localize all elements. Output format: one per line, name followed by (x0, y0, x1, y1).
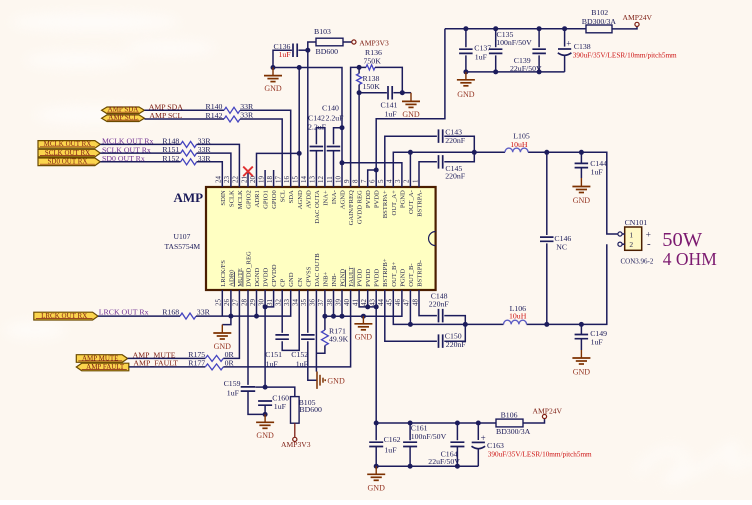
ground GND (C144) (580, 168, 582, 178)
ferrite bead B103 (316, 38, 343, 46)
resistor R142 (224, 116, 240, 122)
svg-text:22: 22 (232, 176, 240, 184)
svg-text:390uF/35V/LESR/10mm/pitch5mm: 390uF/35V/LESR/10mm/pitch5mm (488, 451, 592, 459)
svg-text:28: 28 (240, 299, 248, 307)
wire PVDD feed to pins 6/7 (376, 29, 445, 187)
wire AGND bus (273, 68, 342, 188)
connector CN101 (625, 227, 642, 250)
svg-text:220nF: 220nF (429, 300, 450, 309)
capacitor C163 (polarized) (477, 423, 479, 440)
svg-text:GND: GND (288, 272, 295, 287)
svg-text:R152: R152 (162, 154, 179, 163)
junction pin15 top (297, 65, 302, 70)
svg-text:27: 27 (232, 299, 240, 307)
svg-text:BSTRPB-: BSTRPB- (417, 260, 424, 287)
svg-text:24: 24 (215, 176, 223, 184)
svg-text:40: 40 (343, 299, 351, 307)
svg-text:150K: 150K (363, 82, 381, 91)
junction gain node (357, 65, 362, 70)
svg-text:GND: GND (457, 90, 475, 99)
svg-text:29: 29 (249, 299, 257, 307)
junction PVDD rail left (374, 421, 379, 426)
wire B106 to AMP24V (523, 419, 545, 423)
wire AMP SCL to R142 (144, 118, 224, 120)
ground GND (C149) (580, 339, 582, 350)
resistor R175 (205, 355, 223, 361)
svg-text:CPVSS: CPVSS (305, 266, 312, 286)
svg-text:220nF: 220nF (446, 340, 467, 349)
wire R168 to pins 25/26/29/33 (196, 290, 291, 316)
pin37 riser (324, 290, 326, 316)
junction C146 bottom (544, 322, 549, 327)
wire AMP MUTE to R175 (128, 357, 206, 359)
svg-text:2: 2 (403, 179, 411, 183)
svg-text:DAC OUTA: DAC OUTA (314, 190, 321, 224)
svg-text:DVDD: DVDD (263, 268, 270, 287)
junction pin10 lower (340, 160, 345, 165)
svg-text:SDA: SDA (288, 190, 295, 203)
wire B103 to AMP3V3 (343, 41, 352, 43)
svg-text:R175: R175 (188, 350, 205, 359)
svg-text:R142: R142 (206, 111, 223, 120)
svg-text:INA-: INA- (331, 190, 338, 204)
svg-text:GND: GND (256, 431, 274, 440)
capacitor C142 (310, 147, 324, 151)
junction C136/B103/AVDD (305, 48, 310, 53)
pin1 stub (622, 233, 625, 235)
svg-text:OUT_B-: OUT_B- (408, 263, 415, 286)
svg-text:32: 32 (275, 299, 283, 307)
svg-text:220nF: 220nF (445, 171, 466, 180)
ground GND (top rail) (465, 72, 467, 80)
svg-text:LRCK/FS: LRCK/FS (220, 260, 227, 287)
junction pin26 (228, 314, 233, 319)
wire OUT_A main (393, 152, 505, 187)
svg-text:41: 41 (351, 299, 359, 307)
capacitor C161 (409, 423, 411, 440)
ground GND (bottom) (375, 466, 377, 474)
wire pin10 lower gnd to pin3 PGND (342, 163, 402, 187)
svg-text:11: 11 (326, 176, 334, 183)
wire bottom gnd rail (376, 465, 478, 467)
svg-text:47: 47 (403, 299, 411, 307)
wire AMP FAULT to R177 (129, 366, 206, 368)
svg-text:AMP3V3: AMP3V3 (359, 39, 389, 48)
svg-text:4 OHM: 4 OHM (663, 249, 717, 269)
svg-text:17: 17 (275, 176, 283, 184)
svg-text:34: 34 (292, 299, 300, 307)
wire C140 bottom to pin11 (333, 151, 335, 187)
wire pin12 to C142 top (316, 128, 325, 187)
wire pin2 riser (409, 152, 411, 187)
svg-text:33: 33 (283, 299, 291, 307)
svg-text:50W: 50W (662, 229, 703, 251)
wire R177 to pin40 FAULT (223, 290, 350, 367)
svg-text:+: + (566, 38, 571, 48)
svg-text:PVDD: PVDD (365, 269, 372, 287)
junction C146 top (544, 150, 549, 155)
svg-text:4: 4 (386, 179, 394, 183)
wire R148 to pin22 (197, 144, 240, 187)
svg-text:1uF: 1uF (591, 338, 604, 347)
junction DVDD node (263, 385, 268, 390)
ground GND (horizontal) (317, 372, 325, 389)
junction gnd node under C160 (263, 412, 268, 417)
svg-text:PGND: PGND (399, 190, 406, 208)
svg-text:SCL: SCL (280, 190, 287, 202)
wire pin43 PVDD column (375, 290, 377, 440)
wire MCLK OUT RX to R148 (100, 143, 180, 145)
svg-text:AVDD: AVDD (305, 190, 312, 208)
svg-text:GND: GND (264, 84, 282, 93)
wire C162 bottom (375, 447, 377, 467)
capacitor C160 (258, 401, 272, 405)
svg-text:OUT_A+: OUT_A+ (391, 190, 398, 216)
resistor R148 (181, 141, 197, 147)
pin 2 circle (618, 242, 622, 246)
wire node up to B103 (308, 42, 316, 50)
capacitor C139 (538, 29, 540, 48)
svg-text:CP: CP (280, 278, 287, 286)
svg-text:1uF: 1uF (475, 52, 488, 61)
capacitor C143 (bootstrap A+) (385, 136, 437, 187)
wire B105 to AMP3V3 (294, 423, 296, 437)
svg-text:38: 38 (326, 299, 334, 307)
wire pin7 jumper (368, 170, 377, 187)
svg-text:PGND: PGND (399, 269, 406, 287)
svg-text:31: 31 (266, 299, 274, 307)
svg-text:35: 35 (300, 299, 308, 307)
svg-text:GPIO0: GPIO0 (271, 190, 278, 209)
resistor R136 (359, 66, 366, 68)
svg-text:OUT_A-: OUT_A- (408, 190, 415, 214)
svg-text:390uF/35V/LESR/10mm/pitch5mm: 390uF/35V/LESR/10mm/pitch5mm (573, 52, 677, 60)
svg-text:GAIN/FREQ: GAIN/FREQ (348, 190, 355, 225)
svg-text:1uF: 1uF (384, 445, 397, 454)
wire top group gnd rail (466, 71, 565, 73)
svg-text:1uF: 1uF (274, 402, 287, 411)
svg-text:15: 15 (292, 176, 300, 184)
junction C143/C145 riser (472, 150, 477, 155)
capacitor C135 (495, 29, 497, 48)
svg-text:R148: R148 (162, 137, 179, 146)
svg-text:DVDD_REG: DVDD_REG (246, 251, 253, 287)
svg-text:44: 44 (377, 299, 385, 307)
capacitor C140 (327, 147, 341, 151)
wire DVDD node to B105 (265, 387, 295, 397)
resistor R138 (358, 67, 360, 73)
svg-text:25: 25 (215, 299, 223, 307)
svg-text:BSTRPA+: BSTRPA+ (382, 190, 389, 218)
svg-text:1: 1 (411, 179, 419, 183)
capacitor C151 (CP flying) (281, 290, 283, 333)
wire R151 to pin23 (197, 153, 231, 187)
svg-text:AMP24V: AMP24V (623, 13, 653, 22)
svg-text:AGND: AGND (340, 190, 347, 209)
svg-text:-: - (647, 238, 651, 250)
svg-text:7: 7 (360, 179, 368, 183)
pin38 riser (333, 290, 335, 316)
junction pin2/OUT_A (408, 150, 413, 155)
svg-text:TAS5754M: TAS5754M (165, 242, 201, 251)
wire GND bus to C136 (273, 50, 292, 67)
svg-text:PVDD: PVDD (365, 190, 372, 208)
power port AMP3V3 (352, 40, 356, 44)
svg-text:DGND: DGND (254, 268, 261, 287)
junction pin43 (374, 304, 379, 309)
svg-text:C138: C138 (574, 42, 591, 51)
wire pins41-43 jumper (359, 290, 376, 307)
svg-text:MCLK: MCLK (237, 190, 244, 209)
svg-text:OUT_B+: OUT_B+ (391, 262, 398, 287)
pin name bars (233, 272, 235, 287)
svg-text:10: 10 (334, 176, 342, 184)
svg-text:18: 18 (266, 176, 274, 184)
svg-text:2.2uF: 2.2uF (308, 123, 327, 132)
svg-text:GND: GND (402, 110, 420, 119)
svg-text:PVDD: PVDD (374, 190, 381, 208)
ground GND (C160) (264, 414, 266, 422)
wire R142 to pin17 SCL (240, 119, 282, 187)
wire SCLK OUT RX to R151 (100, 152, 180, 154)
junction pin37 (322, 314, 327, 319)
port AMP_FAULT (76, 363, 129, 371)
svg-text:BD300/3A: BD300/3A (496, 427, 531, 436)
junction C148/C150 riser (463, 322, 468, 327)
svg-text:1uF: 1uF (279, 50, 292, 59)
pin 1 circle (618, 232, 622, 236)
capacitor C145 (bootstrap A-) (419, 162, 437, 187)
svg-text:INB+: INB+ (322, 271, 329, 286)
port MCLK OUT RX (38, 141, 100, 149)
svg-text:PVDD: PVDD (357, 269, 364, 287)
svg-text:750K: 750K (364, 56, 382, 65)
junction bottom rail left (374, 464, 379, 469)
ground GND (AGND bus) (272, 68, 274, 76)
power port AMP24V (bottom) (542, 414, 546, 418)
wire AMP SDA to R140 (144, 109, 224, 111)
resistor R177 (205, 364, 223, 370)
svg-text:BSTRPB+: BSTRPB+ (382, 258, 389, 287)
svg-text:12: 12 (317, 176, 325, 184)
wire pin31 jumper to pin30 (265, 290, 274, 307)
svg-text:220nF: 220nF (445, 136, 466, 145)
wire pin20 ADR1 to pin15 AGND (257, 153, 300, 187)
svg-text:BD600: BD600 (316, 47, 339, 56)
junction C144 (579, 150, 584, 155)
wire GVDD node to pin8 (358, 93, 360, 187)
svg-text:26: 26 (223, 299, 231, 307)
port SCLK OUT RX (38, 149, 100, 157)
capacitor C137 (465, 29, 467, 48)
wire GVDD node to C141 (359, 92, 387, 94)
svg-text:39: 39 (334, 299, 342, 307)
ferrite bead B106 (496, 419, 523, 427)
capacitor C162 (369, 442, 383, 446)
svg-text:DAC OUTB: DAC OUTB (314, 253, 321, 287)
pin26 riser (230, 290, 232, 316)
wire 24V top rail (445, 28, 586, 30)
wire 24V bottom rail (376, 422, 496, 424)
svg-text:R168: R168 (162, 307, 179, 316)
resistor R140 (224, 107, 240, 113)
wire C136 to B103/AVDD node (298, 49, 307, 51)
junction pin30 (263, 304, 268, 309)
svg-text:1uF: 1uF (591, 167, 604, 176)
wire R140 to pin16 SDA (240, 110, 291, 187)
svg-text:LRCK OUT Rx: LRCK OUT Rx (99, 307, 149, 316)
svg-text:BSTRPA-: BSTRPA- (417, 190, 424, 217)
svg-text:37: 37 (317, 299, 325, 307)
svg-text:C141: C141 (381, 100, 398, 109)
wire pin47 riser (409, 290, 411, 324)
svg-text:SDIN: SDIN (220, 190, 227, 206)
svg-text:19: 19 (257, 176, 265, 184)
no-connect X on pin 21 (243, 167, 253, 177)
svg-text:ADR1: ADR1 (254, 190, 261, 207)
svg-text:2: 2 (629, 240, 633, 249)
svg-text:C140: C140 (322, 104, 339, 113)
wire C141 to gnd node (393, 92, 402, 94)
svg-text:+: + (481, 433, 486, 443)
port AMP_SDA (102, 107, 145, 114)
svg-text:36: 36 (309, 299, 317, 307)
junction AGND/GND (271, 65, 276, 70)
svg-text:1uF: 1uF (227, 388, 240, 397)
svg-text:1uF: 1uF (385, 109, 398, 118)
svg-text:NC: NC (556, 243, 567, 252)
junction C149 (579, 322, 584, 327)
svg-text:10uH: 10uH (509, 312, 527, 321)
pin39 riser (341, 290, 343, 316)
svg-text:14: 14 (300, 176, 308, 184)
ground GND (B row) (361, 314, 366, 319)
svg-text:GND: GND (327, 376, 345, 385)
inductor L106 (504, 320, 527, 324)
svg-text:BD300/3A: BD300/3A (582, 17, 617, 26)
svg-text:48: 48 (411, 299, 419, 307)
svg-text:B103: B103 (314, 27, 331, 36)
port AMP_SCL (102, 115, 145, 122)
svg-text:CON3.96-2: CON3.96-2 (621, 258, 654, 266)
svg-text:R177: R177 (188, 359, 205, 368)
svg-text:CN: CN (297, 277, 304, 286)
wire C159 bottom (248, 391, 265, 414)
svg-text:46: 46 (394, 299, 402, 307)
junction C141 gnd node (400, 90, 405, 95)
power port AMP24V (top) (635, 22, 639, 26)
svg-text:GPIO2: GPIO2 (246, 190, 253, 209)
resistor R151 (181, 150, 197, 156)
svg-text:AMP: AMP (174, 190, 204, 205)
capacitor C159 (241, 387, 256, 391)
pin2 stub (622, 243, 625, 245)
junction pin42 (365, 304, 370, 309)
junction pin38 (331, 314, 336, 319)
port LRCK_OUT_RX (34, 312, 98, 320)
wire OUT_B main (393, 290, 503, 324)
junction pin39 (340, 314, 345, 319)
svg-text:3: 3 (394, 179, 402, 183)
capacitor C141 (388, 86, 392, 100)
svg-text:10uH: 10uH (510, 140, 528, 149)
junction GVDD node (357, 90, 362, 95)
svg-text:13: 13 (309, 176, 317, 184)
svg-text:GND: GND (573, 196, 591, 205)
svg-text:GND: GND (368, 483, 386, 492)
inductor L105 (505, 148, 528, 152)
capacitor C152 (CPVSS) (307, 290, 309, 333)
op-amp U107 TAS5754M chip body (206, 187, 436, 290)
junction pin29 (254, 314, 259, 319)
svg-text:AMP24V: AMP24V (533, 407, 563, 416)
svg-text:100nF/50V: 100nF/50V (496, 38, 532, 47)
svg-text:R140: R140 (206, 102, 223, 111)
wire LRCK to R168 (98, 315, 180, 317)
wire INB/PGND gnd row (325, 290, 402, 316)
ferrite bead B102 (586, 25, 612, 33)
wire R152 to pin24 (197, 162, 223, 187)
wire R175 to pin27 MUTE (223, 290, 239, 358)
svg-text:B106: B106 (501, 411, 518, 420)
wire B102 to AMP24V (612, 27, 637, 29)
junction pin6/pin7 (374, 168, 379, 173)
svg-text:16: 16 (283, 176, 291, 184)
svg-text:5: 5 (377, 179, 385, 183)
svg-text:49.9K: 49.9K (329, 335, 349, 344)
capacitor C164 (456, 423, 458, 440)
svg-text:INB-: INB- (331, 273, 338, 287)
wire pin10/C140 jog (334, 128, 343, 145)
ground GND (ADR0) (222, 316, 231, 325)
wire AVDD riser to pin14 (307, 50, 309, 187)
wire C142 bottom to pin13 (315, 151, 317, 187)
svg-text:22uF/50V: 22uF/50V (428, 457, 460, 466)
svg-text:C142: C142 (308, 114, 325, 123)
port SD0 OUT RX (38, 158, 100, 166)
resistor R168 (180, 313, 196, 319)
svg-text:23: 23 (223, 176, 231, 184)
svg-text:GPIO1: GPIO1 (263, 190, 270, 209)
svg-text:BD600: BD600 (299, 405, 322, 414)
pin25 riser (221, 290, 223, 316)
svg-text:GND: GND (573, 367, 591, 376)
wire C159 top to DVDD node (255, 386, 265, 388)
svg-text:C137: C137 (474, 44, 491, 53)
svg-text:C163: C163 (487, 441, 504, 450)
svg-text:9: 9 (343, 179, 351, 183)
svg-text:100nF/50V: 100nF/50V (411, 432, 447, 441)
port AMP_MUTE (76, 355, 127, 363)
capacitor C146 (NC) (546, 152, 548, 235)
capacitor C149 (580, 324, 582, 334)
svg-text:INA+: INA+ (322, 190, 329, 206)
capacitor C136 (293, 44, 297, 58)
svg-text:C152: C152 (291, 350, 308, 359)
ferrite bead B105 (291, 397, 300, 424)
svg-text:C160: C160 (272, 393, 289, 402)
pin 21 stub (no connect) (247, 170, 249, 187)
svg-text:21: 21 (240, 176, 248, 184)
svg-text:GND: GND (355, 332, 373, 341)
capacitor C148 (bootstrap B-) (419, 290, 437, 316)
svg-text:B102: B102 (591, 8, 608, 17)
svg-text:6: 6 (369, 179, 377, 183)
svg-text:45: 45 (386, 299, 394, 307)
wire pin15 riser (298, 68, 300, 188)
pin 18 stub (273, 170, 275, 187)
capacitor C138 (polarized) (564, 29, 566, 47)
